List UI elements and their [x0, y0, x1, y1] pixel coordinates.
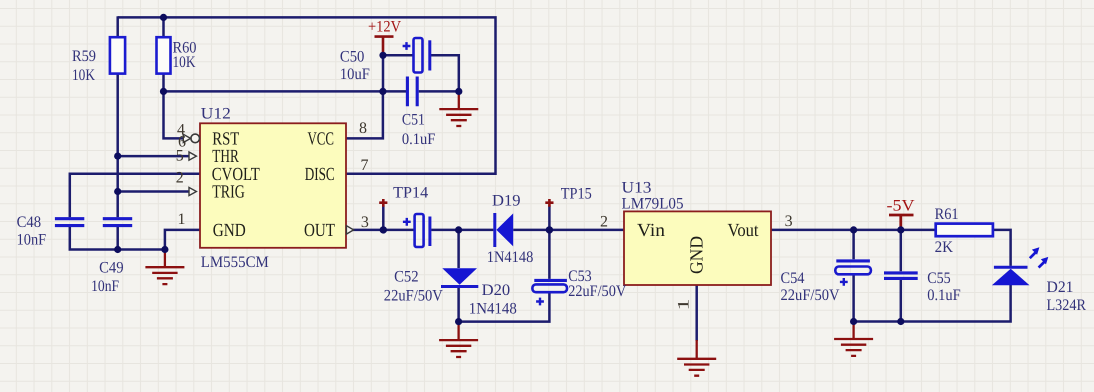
- svg-text:OUT: OUT: [304, 221, 335, 241]
- svg-text:10uF: 10uF: [340, 66, 370, 83]
- power -5V: [887, 198, 915, 230]
- svg-text:1N4148: 1N4148: [469, 300, 517, 317]
- test point TP15: [545, 185, 592, 207]
- svg-text:C49: C49: [99, 260, 124, 277]
- svg-text:R59: R59: [72, 48, 96, 65]
- capacitor C54 polarized: [781, 261, 871, 304]
- node C54 bottom ground: [850, 318, 857, 325]
- svg-text:D21: D21: [1047, 279, 1074, 296]
- wire R60 bottom to RST pin4: [164, 74, 185, 139]
- pin 4 input arrow: [183, 134, 190, 142]
- wire TP15 stem: [548, 206, 551, 230]
- svg-text:7: 7: [361, 157, 369, 174]
- svg-text:U13: U13: [622, 180, 652, 197]
- svg-text:C51: C51: [402, 111, 425, 128]
- svg-text:LM79L05: LM79L05: [622, 195, 684, 212]
- svg-text:Vin: Vin: [637, 221, 665, 241]
- resistor R59: [72, 37, 125, 84]
- node C55 -5V R61: [897, 226, 904, 233]
- capacitor C49: [91, 219, 132, 296]
- wire D19 to Vin U13: [513, 229, 624, 232]
- IC U12 body LM555CM: [200, 123, 346, 248]
- wire R59 top lead: [116, 16, 119, 37]
- svg-text:C52: C52: [394, 269, 419, 286]
- IC U13 body LM79L05: [624, 211, 771, 285]
- svg-text:10K: 10K: [173, 54, 196, 71]
- svg-text:Vout: Vout: [728, 221, 760, 241]
- svg-text:3: 3: [361, 214, 369, 231]
- node C50 C51 ground: [455, 88, 462, 95]
- svg-text:TP15: TP15: [561, 185, 592, 202]
- node C49 bottom: [114, 246, 121, 253]
- node TRIG on R59 column: [114, 188, 121, 195]
- svg-text:3: 3: [785, 213, 793, 230]
- svg-text:1: 1: [676, 299, 693, 311]
- test point TP14: [379, 184, 428, 207]
- svg-text:8: 8: [359, 120, 367, 137]
- svg-text:10nF: 10nF: [17, 231, 47, 248]
- svg-text:L324R: L324R: [1047, 297, 1087, 314]
- wire THR pin6: [118, 155, 190, 158]
- svg-text:0.1uF: 0.1uF: [927, 287, 961, 304]
- svg-text:C50: C50: [340, 48, 365, 65]
- pin 2 input arrow: [189, 187, 196, 195]
- capacitor C55: [884, 270, 961, 304]
- svg-text:D20: D20: [482, 282, 511, 299]
- capacitor C53 polarized: [532, 268, 626, 305]
- node D20 C53 ground: [455, 318, 462, 325]
- wire CVOLT pin5 to C48: [70, 174, 200, 218]
- wire VCC pin8: [346, 91, 383, 138]
- capacitor C50 polarized: [340, 38, 430, 83]
- diode D19 1N4148: [487, 192, 534, 266]
- svg-text:22uF/50V: 22uF/50V: [781, 287, 840, 304]
- node C51 VCC: [379, 88, 386, 95]
- svg-text:U12: U12: [201, 106, 231, 123]
- LED D21 L324R: [992, 247, 1086, 314]
- wire C51 right to ground node: [419, 90, 459, 93]
- node C54 top: [850, 226, 857, 233]
- wire R61 to D21 corner: [993, 230, 1011, 266]
- wire node R60 to C51 left: [164, 90, 407, 93]
- node TP15 D19 C53: [546, 226, 553, 233]
- capacitor C52 polarized: [384, 214, 443, 304]
- wire D20 branch: [457, 230, 460, 322]
- wire +12V node to C50: [383, 55, 414, 91]
- pin 4 inversion bubble on RST: [191, 134, 200, 143]
- pin 6 input arrow: [189, 152, 196, 160]
- ground under C54: [834, 322, 873, 356]
- svg-text:2: 2: [600, 214, 608, 231]
- svg-text:2K: 2K: [935, 239, 954, 256]
- wire bottom right rail: [854, 285, 1011, 322]
- node TP14: [380, 226, 387, 233]
- node R60 top rail: [160, 14, 167, 21]
- svg-text:TRIG: TRIG: [212, 183, 245, 203]
- svg-text:GND: GND: [213, 221, 246, 241]
- wire R59 column down to C49: [116, 74, 119, 218]
- wire C53 branch: [459, 230, 550, 322]
- wire C55 branch: [900, 230, 903, 322]
- ground under C50 C51: [439, 91, 478, 126]
- ground under D20 C53: [439, 322, 478, 357]
- svg-text:TP14: TP14: [393, 184, 428, 201]
- svg-text:1N4148: 1N4148: [487, 249, 534, 266]
- svg-text:VCC: VCC: [308, 130, 335, 150]
- wire U13 GND pin: [695, 285, 698, 341]
- svg-text:1: 1: [178, 211, 186, 228]
- wire OUT pin3 to C52: [346, 229, 415, 232]
- node THR on R59 column: [114, 153, 121, 160]
- svg-text:22uF/50V: 22uF/50V: [384, 287, 443, 304]
- wire TRIG pin2: [118, 190, 190, 193]
- svg-text:LM555CM: LM555CM: [201, 254, 269, 271]
- ground under U13: [677, 340, 716, 376]
- svg-text:C55: C55: [927, 270, 951, 287]
- svg-text:2: 2: [176, 169, 184, 186]
- svg-text:+12V: +12V: [368, 19, 401, 36]
- svg-text:-5V: -5V: [887, 198, 915, 215]
- wire TP14 stem: [382, 206, 385, 230]
- svg-text:DISC: DISC: [305, 165, 335, 185]
- node +12V C50: [379, 52, 386, 59]
- resistor R61: [935, 206, 993, 256]
- node C52 D19 D20: [455, 226, 462, 233]
- svg-text:C48: C48: [17, 214, 41, 231]
- svg-text:10K: 10K: [72, 67, 95, 84]
- svg-text:0.1uF: 0.1uF: [402, 131, 436, 148]
- node C55 bottom: [897, 318, 904, 325]
- wire top rail from R59 to DISC loop: [118, 17, 496, 173]
- wire GND pin1: [165, 230, 200, 250]
- svg-text:R61: R61: [935, 206, 959, 223]
- svg-text:GND: GND: [688, 236, 708, 274]
- capacitor C51: [402, 77, 436, 149]
- diode D20 1N4148: [441, 268, 517, 317]
- wire C49 bottom lead: [116, 227, 119, 250]
- pin 3 output arrow: [346, 226, 353, 234]
- svg-text:5: 5: [176, 148, 184, 165]
- node R60 bottom to C51: [160, 88, 167, 95]
- node GND pin1 ground: [161, 246, 168, 253]
- wire C54 branch: [852, 230, 855, 322]
- svg-text:10nF: 10nF: [91, 278, 119, 295]
- wire Vout pin3 to R61: [771, 229, 936, 232]
- power +12V: [368, 19, 401, 56]
- resistor R60: [157, 37, 197, 73]
- wire C50 right side down: [431, 55, 459, 91]
- wire R60 top lead: [162, 16, 165, 37]
- wire C52 to D19: [431, 229, 493, 232]
- svg-text:C54: C54: [781, 270, 805, 287]
- ground under U12 GND: [145, 250, 184, 285]
- svg-text:D19: D19: [492, 192, 521, 209]
- svg-text:22uF/50V: 22uF/50V: [568, 283, 626, 300]
- wire C48 bottom lead: [70, 227, 165, 250]
- capacitor C48: [17, 214, 85, 248]
